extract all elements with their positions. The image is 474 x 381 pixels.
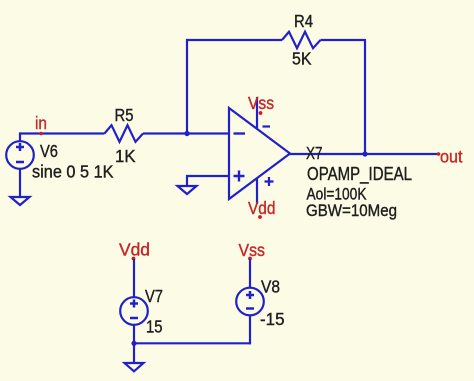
svg-text:Vdd: Vdd bbox=[248, 198, 276, 218]
svg-text:GBW=10Meg: GBW=10Meg bbox=[306, 201, 397, 220]
svg-text:Vdd: Vdd bbox=[119, 240, 150, 260]
wire feedback left vertical bbox=[186, 39, 188, 134]
svg-text:sine 0 5 1K: sine 0 5 1K bbox=[32, 162, 114, 182]
net dot Vss supply bbox=[248, 257, 252, 261]
wire output bbox=[289, 153, 437, 155]
wire V6 bottom bbox=[19, 169, 21, 197]
voltage source V8 bbox=[236, 288, 264, 316]
wire feedback top right bbox=[321, 39, 366, 41]
svg-text:V7: V7 bbox=[145, 286, 163, 306]
ground bottom bbox=[125, 363, 144, 371]
op-amp inverting input mark bbox=[234, 132, 246, 134]
op-amp V+ pin stub bbox=[256, 178, 258, 205]
op-amp noninverting input mark bbox=[234, 171, 245, 182]
wire V7 bottom bbox=[133, 325, 135, 362]
voltage source V7 bbox=[120, 297, 148, 325]
ground wire op-amp noninverting bbox=[187, 176, 229, 185]
wire V6 to R5 bbox=[20, 134, 105, 142]
svg-text:1K: 1K bbox=[115, 146, 136, 166]
wire bottom horizontal bbox=[134, 342, 250, 344]
op-amp U X7 triangle bbox=[229, 108, 290, 199]
node in dot bbox=[39, 132, 43, 136]
svg-text:OPAMP_IDEAL: OPAMP_IDEAL bbox=[307, 163, 412, 185]
ground V6 bbox=[11, 197, 30, 205]
voltage source V6 bbox=[6, 141, 34, 169]
node out dot bbox=[437, 152, 441, 156]
op-amp V+ pin dot bbox=[258, 215, 262, 219]
svg-text:X7: X7 bbox=[306, 143, 323, 163]
ground op-amp bbox=[178, 186, 197, 194]
junction dot input bbox=[184, 131, 189, 136]
junction dot bottom bbox=[131, 341, 136, 346]
svg-text:-15: -15 bbox=[260, 309, 285, 329]
wire R5 to op-amp bbox=[143, 132, 229, 134]
svg-text:in: in bbox=[35, 113, 47, 133]
wire feedback right vertical bbox=[364, 39, 366, 154]
op-amp V- pin stub bbox=[256, 97, 258, 129]
junction dot output bbox=[362, 151, 367, 156]
resistor R5 bbox=[105, 125, 144, 142]
svg-text:15: 15 bbox=[146, 317, 163, 337]
svg-text:Vss: Vss bbox=[248, 93, 274, 113]
resistor R4 bbox=[282, 32, 321, 48]
wire Vdd to V7 bbox=[133, 259, 135, 297]
svg-text:R5: R5 bbox=[115, 105, 134, 125]
svg-text:V8: V8 bbox=[261, 277, 280, 297]
svg-text:Vss: Vss bbox=[239, 240, 266, 260]
wire feedback top left bbox=[186, 39, 282, 41]
wire V8 bottom bbox=[249, 315, 251, 344]
op-amp V- pin dot bbox=[259, 111, 263, 115]
op-amp V+ polarity mark bbox=[265, 177, 274, 186]
net dot Vdd supply bbox=[132, 257, 136, 261]
svg-text:R4: R4 bbox=[294, 11, 313, 31]
svg-text:V6: V6 bbox=[40, 141, 58, 161]
wire Vss to V8 bbox=[249, 259, 251, 288]
svg-text:5K: 5K bbox=[292, 49, 312, 69]
op-amp V- polarity mark bbox=[263, 125, 271, 127]
svg-text:out: out bbox=[440, 147, 463, 167]
